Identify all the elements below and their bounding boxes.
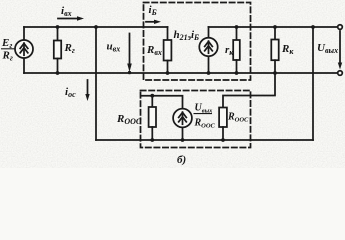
wire output return: top rail down to feedback bottom bbox=[312, 27, 314, 140]
node base: vertical uвх feedback wire bbox=[95, 27, 97, 140]
resistor ROOC2 bbox=[219, 108, 227, 128]
wire uвх arrow bbox=[129, 34, 131, 66]
terminal output top bbox=[338, 25, 343, 30]
current source h21э iБ stubs bbox=[208, 27, 210, 38]
label Uвых/ROOC fraction bbox=[194, 103, 216, 130]
svg-text:б): б) bbox=[177, 154, 186, 166]
wire Uвых arrow bbox=[339, 31, 341, 65]
wire feedback top bbox=[142, 96, 183, 109]
resistor RГ bbox=[57, 27, 59, 41]
wire top input rail bbox=[24, 26, 168, 28]
feedback dashed box bbox=[141, 91, 251, 148]
wire bottom common rail bbox=[24, 72, 338, 74]
current source Uвых/ROOC bbox=[173, 109, 192, 128]
current source EГ/RГ bbox=[15, 40, 33, 58]
transistor dashed box bbox=[144, 3, 251, 81]
resistor Rвх bbox=[167, 27, 169, 40]
resistor rк bbox=[236, 27, 238, 40]
generator source EГ/RГ stubs bbox=[23, 27, 25, 40]
wire feedback bottom bbox=[96, 139, 313, 141]
current source h21э iБ bbox=[199, 38, 217, 56]
wire iБ arrow bbox=[146, 21, 156, 23]
wire Rк node down to feedback resistor ROOC2 bbox=[223, 73, 275, 108]
terminal output bottom bbox=[338, 71, 343, 76]
wire iвх arrow bbox=[58, 18, 79, 20]
resistor ROOC1 bbox=[151, 96, 153, 107]
current source Uвых/ROOC stubs bbox=[182, 128, 184, 141]
wire top collector rail bbox=[209, 26, 339, 28]
wire iос arrow bbox=[87, 80, 89, 96]
label EГ/RГ fraction bbox=[1, 37, 15, 63]
resistor Rк bbox=[274, 27, 276, 40]
